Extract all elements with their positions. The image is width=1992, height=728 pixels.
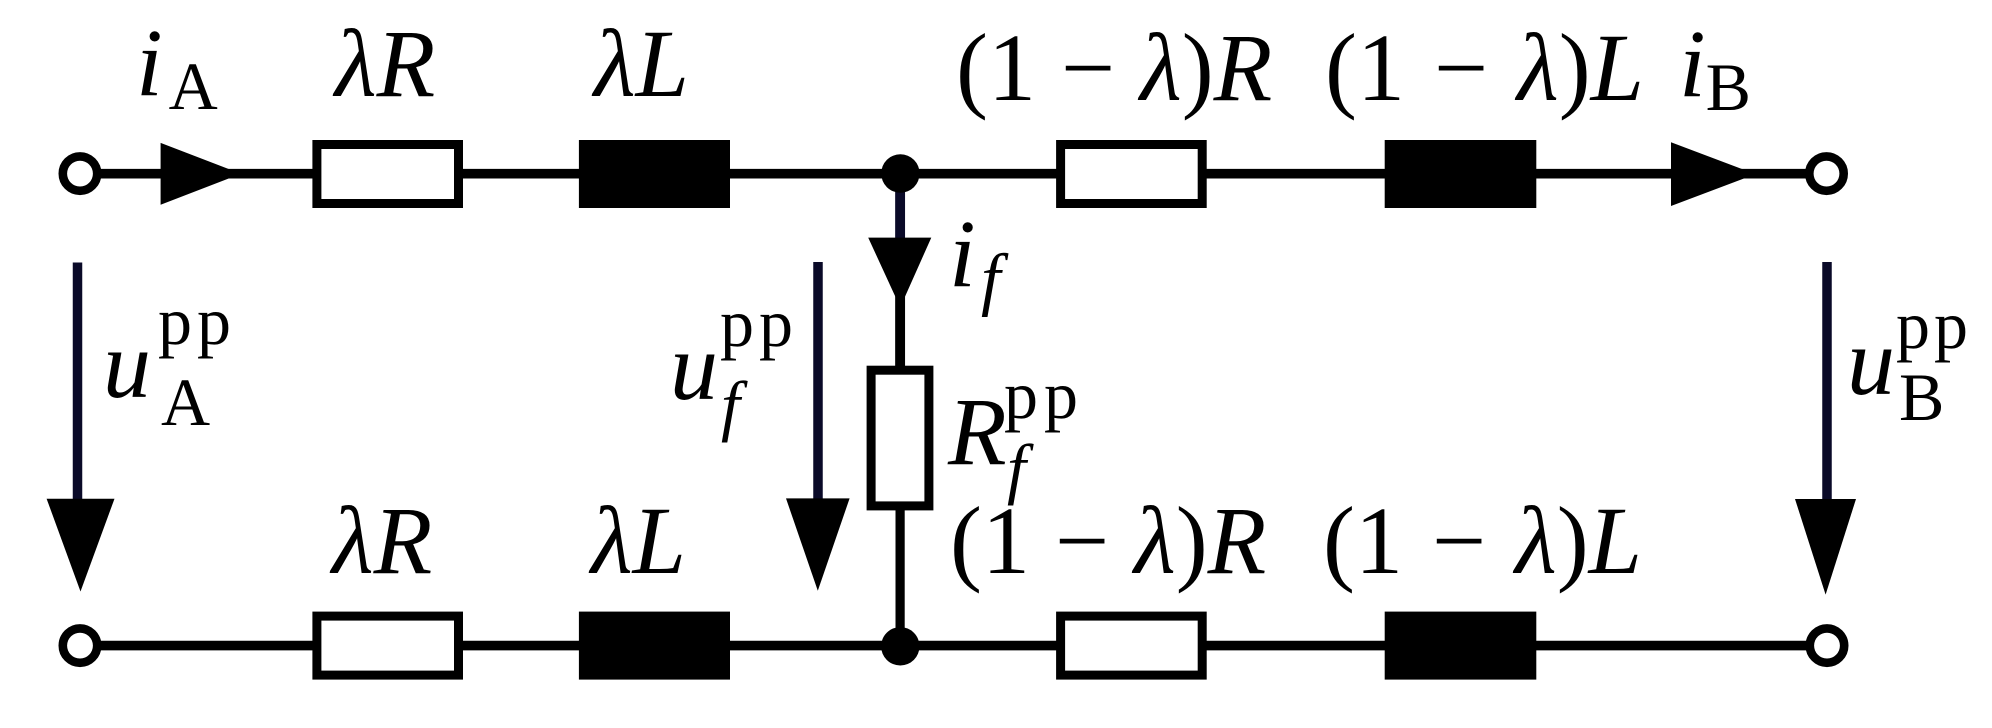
svg-text:R: R <box>947 378 1007 485</box>
resistor (1-lambda)R top <box>1061 145 1203 204</box>
svg-text:(1−λ)L: (1−λ)L <box>1323 487 1642 594</box>
voltage arrow uf head <box>786 498 850 590</box>
svg-text:u: u <box>103 311 151 418</box>
wire Rf to bottom node <box>895 510 904 646</box>
current arrow iB <box>1671 142 1756 206</box>
terminal A bottom <box>63 628 97 662</box>
inductor (1-lambda)L top <box>1385 140 1537 208</box>
svg-text:i: i <box>949 200 976 307</box>
svg-text:(1−λ)R: (1−λ)R <box>956 14 1272 121</box>
resistor (1-lambda)R bottom <box>1061 616 1203 675</box>
svg-text:A: A <box>161 364 210 440</box>
current arrowhead i_f <box>868 238 931 316</box>
terminal B bottom <box>1810 628 1844 662</box>
voltage arrow uA head <box>47 499 115 592</box>
wire top rail <box>99 169 1806 179</box>
svg-text:pp: pp <box>158 283 236 359</box>
svg-text:u: u <box>670 313 718 420</box>
svg-text:pp: pp <box>720 285 798 361</box>
inductor lambda-L top <box>579 140 730 208</box>
resistor lambda-R top <box>317 145 459 204</box>
current arrow iA <box>161 143 241 205</box>
resistor lambda-R bottom <box>317 616 459 675</box>
wire fault stub (navy) <box>895 176 905 240</box>
svg-text:(1−λ)L: (1−λ)L <box>1325 14 1644 121</box>
svg-text:pp: pp <box>1004 357 1084 433</box>
svg-text:λL: λL <box>588 487 686 594</box>
resistor Rf <box>871 370 929 506</box>
voltage arrow uB stem <box>1822 262 1832 505</box>
svg-text:u: u <box>1847 308 1895 415</box>
inductor (1-lambda)L bottom <box>1385 612 1537 680</box>
voltage arrow uf stem <box>813 262 823 505</box>
svg-text:pp: pp <box>1896 287 1972 363</box>
svg-text:λR: λR <box>332 10 435 117</box>
svg-text:B: B <box>1899 359 1944 435</box>
voltage arrow uB head <box>1795 499 1856 595</box>
node top <box>881 154 919 192</box>
terminal A top <box>63 156 97 190</box>
terminal B top <box>1809 156 1843 190</box>
voltage arrow uA stem <box>73 263 83 506</box>
wire below i_f arrow <box>895 290 905 370</box>
wire bottom rail <box>99 641 1807 651</box>
svg-text:(1−λ)R: (1−λ)R <box>950 487 1266 594</box>
svg-text:λR: λR <box>329 487 432 594</box>
inductor lambda-L bottom <box>579 612 730 680</box>
svg-text:λL: λL <box>591 10 689 117</box>
node bottom <box>881 627 919 665</box>
